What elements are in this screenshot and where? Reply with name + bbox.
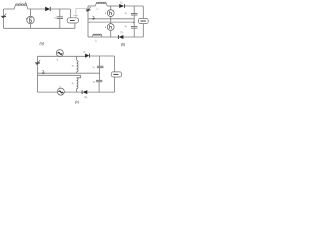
capacitor C2 (b) plates — [131, 26, 137, 28]
wire: capacitor branch top stub (b) — [133, 6, 135, 13]
svg-text:L₁: L₁ — [97, 9, 99, 11]
svg-text:i₁: i₁ — [57, 58, 59, 62]
wire: (b) right vertical lower — [142, 24, 144, 37]
wire: (a) right vertical upper — [69, 9, 71, 18]
svg-text:(b): (b) — [121, 43, 126, 47]
current arrow on upper middle rail (b) — [93, 16, 95, 19]
wire: capacitor branch top stub (c) — [99, 56, 101, 66]
inductor L2 (b) winding on bottom rail — [92, 35, 102, 37]
source V3 arrow (c) — [37, 60, 41, 64]
svg-text:i₂: i₂ — [59, 84, 61, 88]
wire: (b) middle rail lower — [88, 21, 134, 23]
source M2 glyph (c) — [59, 91, 63, 93]
diode D1 (b) — [119, 4, 124, 8]
wire: (a) left vertical — [3, 9, 5, 28]
switch S1 symbol (b) — [109, 11, 111, 15]
source V3 bar (c) — [35, 62, 40, 64]
wire: (a) top middle segment — [28, 8, 46, 10]
wire: (a) bottom — [4, 27, 75, 29]
switch S2 symbol (b) — [109, 25, 111, 29]
wire: capacitor branch upper stub (a) — [59, 9, 61, 17]
wire: (b) bottom left segment — [88, 36, 92, 38]
inductor N1 vertical winding (c) — [77, 60, 78, 72]
wire: switch branch lower stub (a) — [30, 24, 32, 29]
wire: (a) right vertical lower — [74, 23, 76, 28]
svg-text:c₂: c₂ — [93, 80, 95, 83]
wire: (b) top left segment — [88, 5, 95, 7]
wire: (c) top left segment — [38, 55, 57, 57]
wire: (c) bottom left segment — [38, 91, 58, 93]
load box (b) — [138, 18, 148, 23]
svg-text:n₂: n₂ — [72, 82, 74, 85]
wire: S2 to bottom rail (b) — [110, 30, 112, 37]
current arrow on upper middle rail (c) — [42, 70, 44, 73]
wire: (b) bottom right segment — [123, 36, 143, 38]
capacitor C (a) plates — [57, 16, 63, 18]
svg-text:c₁: c₁ — [93, 66, 95, 69]
source V2 bar (b) — [86, 9, 91, 11]
wire: (c) bottom middle segment — [64, 91, 82, 93]
wire: capacitor branch bottom stub (b) — [133, 28, 135, 37]
switch S2 circle (b) — [107, 24, 114, 31]
diode D1 (c) — [85, 54, 89, 58]
meter M1 glyph (c) — [58, 52, 62, 54]
diode D2 (c) — [81, 90, 83, 94]
wire: lower winding bottom stub (c) — [76, 89, 78, 93]
svg-text:(c): (c) — [75, 100, 80, 104]
svg-text:(a): (a) — [40, 42, 45, 46]
wire: (b) top right segment — [124, 5, 143, 7]
svg-text:c₁: c₁ — [125, 12, 127, 15]
wire: (a) top left segment — [4, 8, 15, 10]
inductor L1 (b) raised winding — [95, 3, 107, 6]
wire: upper winding bottom stub (c) — [76, 72, 78, 73]
svg-text:c₂: c₂ — [125, 25, 127, 28]
load box (a) — [67, 18, 78, 23]
wire: capacitor branch middle (b) — [133, 15, 135, 26]
switch S1 circle (b) — [107, 10, 114, 17]
wire: link stub from load box top toward (b) input node — [76, 8, 88, 17]
capacitor C1 (c) plates — [97, 65, 104, 67]
switch S symbol (a) — [30, 18, 32, 23]
wire: upper winding top stub (c) — [76, 56, 78, 60]
wire: S1 to S2 column (b) — [110, 17, 112, 24]
svg-text:L: L — [25, 0, 27, 4]
wire: lower winding jog from rail (c) — [77, 75, 81, 78]
wire: (b) bottom middle segment — [92, 36, 118, 38]
source V1 arrow — [3, 13, 7, 17]
label Load (a) — [70, 20, 75, 22]
meter M1 circle (c) — [56, 50, 63, 57]
svg-text:D₁: D₁ — [120, 2, 123, 4]
wire: switch branch upper stub (a) — [30, 9, 32, 16]
wire: (c) top middle segment — [56, 55, 85, 57]
wire: (c) bottom right segment — [87, 91, 114, 93]
wire: capacitor branch middle (c) — [99, 68, 101, 80]
label Load (c) — [113, 73, 118, 75]
diode D2 (b) — [117, 35, 119, 39]
svg-text:D₂: D₂ — [85, 96, 88, 99]
wire: capacitor branch lower stub (a) — [59, 19, 61, 29]
wire: (c) right vertical lower — [114, 77, 116, 92]
svg-text:n₁: n₁ — [72, 65, 74, 68]
svg-text:L₂: L₂ — [95, 40, 97, 42]
wire: (b) left vertical — [87, 6, 89, 37]
wire: (b) middle rail upper — [88, 18, 134, 20]
wire: switch column upper stub (b) — [110, 6, 112, 10]
capacitor C1 (b) plates — [131, 12, 137, 14]
inductor L1 (a) raised winding — [14, 5, 28, 9]
source V2 arrow (b) — [87, 7, 91, 11]
source V1 bar — [1, 15, 6, 17]
wire: (c) left vertical — [37, 56, 39, 92]
inductor N2 vertical winding (c) — [77, 78, 78, 89]
wire: (b) top middle segment — [107, 5, 119, 7]
wire: capacitor branch bottom stub (c) — [98, 82, 100, 92]
source M2 circle (c) — [57, 88, 64, 95]
label smudge above load box (a) — [73, 15, 78, 17]
diode D1 (a) — [45, 7, 50, 11]
wire: (c) middle rail lower — [38, 74, 81, 76]
wire: (c) right vertical upper — [114, 56, 116, 72]
svg-text:D₂: D₂ — [121, 32, 124, 34]
wire: (c) top right segment — [89, 55, 114, 57]
wire: (b) right vertical upper — [142, 6, 144, 18]
junction node at capacitor midpoint (b) — [133, 22, 135, 24]
label Load (b) — [141, 20, 147, 22]
capacitor C2 (c) plates — [96, 79, 102, 81]
load box (c) — [111, 72, 122, 77]
wire: (c) middle rail upper — [38, 72, 100, 74]
switch S circle (a) — [27, 16, 34, 23]
wire: (a) top right segment — [50, 8, 70, 10]
